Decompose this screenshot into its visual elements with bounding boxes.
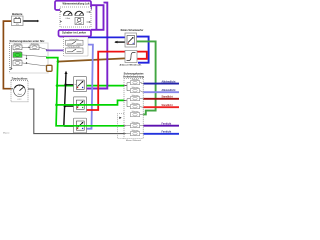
wire: green Relais output to fusebox2 right side: [137, 41, 156, 114]
block: Sicherungskasten unter Sitz (fusebox1): [10, 39, 49, 73]
block: Sicherungskasten Vorderbeleuchtung (fusebox2): [123, 73, 144, 139]
svg-text:Fernlicht: Fernlicht: [162, 131, 172, 134]
wire: purple fusebox1 row1 to Schalter left port: [46, 49, 64, 51]
svg-text:Abblendlicht: Abblendlicht: [162, 81, 176, 84]
svg-text:Fernlicht: Fernlicht: [162, 123, 172, 126]
wire: purple small vertical: [95, 5, 97, 30]
wire: black arrow stub into Relais: [115, 41, 125, 43]
block: dotted gauge box (heat/air icon): [60, 7, 91, 27]
svg-text:Masse: Masse: [3, 133, 10, 135]
svg-text:Standlicht: Standlicht: [162, 96, 173, 99]
svg-text:Abblendlicht: Abblendlicht: [162, 89, 176, 92]
block: relay 3: [74, 118, 87, 133]
wire: violet Fernlicht 1: [143, 125, 179, 127]
fuses: [131, 81, 140, 136]
svg-text:Schalter im Lenker: Schalter im Lenker: [62, 31, 86, 35]
svg-text:0 1 2: 0 1 2: [18, 99, 22, 101]
wire: blue Fernlicht 2: [143, 133, 179, 135]
wire: green tree from fusebox1 to fusebox2 bottom: [46, 58, 124, 126]
block: Batterie: [12, 12, 24, 26]
tiny fuse labels: [132, 78, 139, 132]
svg-text:Standlicht: Standlicht: [162, 104, 173, 107]
thin internal wires: [125, 83, 144, 134]
left port chevron: [10, 68, 12, 70]
wire: blue Schalter to Relais: [88, 36, 125, 38]
svg-text:Zündschloss: Zündschloss: [12, 76, 29, 80]
svg-text:Masse (Rahmen): Masse (Rahmen): [126, 140, 142, 141]
wire: battery black output (open ended, arrow): [23, 20, 38, 22]
wire: green branch relay2 row stepped: [57, 100, 124, 105]
svg-text:Batterie: Batterie: [12, 12, 23, 16]
svg-text:Zünd: Zünd: [18, 94, 22, 96]
svg-text:Wärmeentwicklung Luft: Wärmeentwicklung Luft: [63, 2, 90, 5]
wire: periwinkle Abblendlicht 2: [143, 91, 179, 93]
svg-text:Vorderbeleuchtung: Vorderbeleuchtung: [123, 75, 144, 78]
svg-text:Relais Scheinwerfer: Relais Scheinwerfer: [121, 29, 144, 32]
svg-text:U Batt: U Batt: [65, 17, 70, 20]
wire: battery brown feed to ignition lock: [3, 21, 11, 89]
block: purple tag above Schalter: [59, 30, 92, 37]
block: purple tag Wärmeentwicklung Luft: [55, 1, 91, 10]
wire: green junction dot relay2 row: [55, 104, 58, 107]
block: Schalter (handlebar switches): [64, 37, 89, 56]
wire: purple inner loop right of top tag: [91, 5, 104, 30]
wire: gray ignition to fusebox2: [28, 89, 124, 134]
wire: red relay2 wrap to Anlasser: [86, 52, 147, 110]
wire: blue Relais wrap to Anlasser underside: [137, 37, 149, 63]
svg-text:Sicherungskasten: Sicherungskasten: [124, 73, 144, 76]
wire: maroon Standlicht 1: [143, 98, 179, 100]
svg-text:Sicherungskasten unter Sitz: Sicherungskasten unter Sitz: [10, 39, 46, 43]
wire: green branch relay1 row: [57, 85, 124, 87]
wire: purple relay1 output up to top tag: [86, 3, 107, 89]
block: brown tag at fusebox1 output: [47, 65, 53, 71]
block: Zündschloss (ignition lock): [11, 76, 28, 102]
wire: black bus for relays: [64, 73, 66, 126]
wire: navy Abblendlicht 1: [143, 83, 179, 85]
block: relay 1: [74, 77, 87, 92]
block: Anlasser (saturation curve): [120, 51, 142, 67]
block: relay 2: [74, 97, 87, 112]
wire: red Standlicht 2: [143, 106, 179, 108]
wire: periwinkle Schalter down to relay3: [86, 45, 93, 129]
block: Relais Scheinwerfer: [121, 29, 144, 47]
svg-text:Anlasser Wendeschl.: Anlasser Wendeschl.: [120, 64, 142, 67]
wire: brown diagonal tag to Anlasser: [57, 58, 125, 61]
